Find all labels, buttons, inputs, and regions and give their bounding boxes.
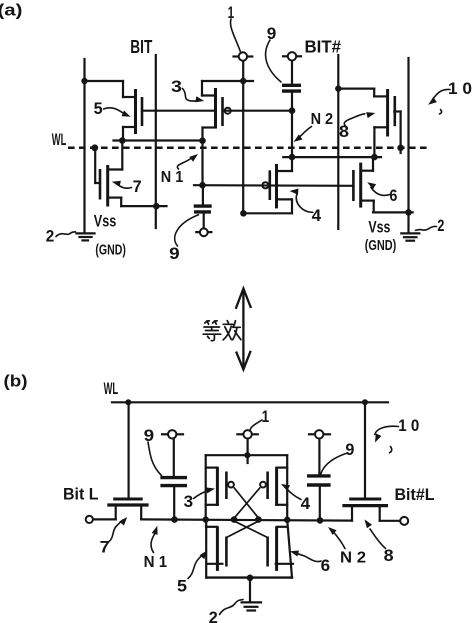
svg-text:BIT#: BIT# bbox=[305, 36, 342, 56]
svg-text:1 0: 1 0 bbox=[398, 416, 419, 435]
svg-text:Vss: Vss bbox=[94, 213, 117, 231]
svg-text:4: 4 bbox=[312, 206, 322, 225]
svg-text:1: 1 bbox=[262, 407, 270, 426]
svg-text:(b): (b) bbox=[4, 372, 28, 391]
svg-text:6: 6 bbox=[389, 186, 397, 205]
svg-text:N 1: N 1 bbox=[161, 169, 184, 186]
svg-text:WL: WL bbox=[104, 379, 119, 398]
svg-text:9: 9 bbox=[144, 426, 155, 445]
svg-text:2: 2 bbox=[209, 608, 218, 623]
svg-text:N 2: N 2 bbox=[340, 549, 366, 566]
svg-text:2: 2 bbox=[46, 227, 55, 246]
svg-text:BIT: BIT bbox=[130, 37, 152, 57]
svg-text:N 1: N 1 bbox=[144, 554, 168, 571]
svg-text:5: 5 bbox=[94, 99, 103, 118]
svg-text:9: 9 bbox=[345, 440, 354, 459]
svg-text:Bit L: Bit L bbox=[63, 486, 99, 504]
svg-text:5: 5 bbox=[177, 576, 187, 595]
svg-text:8: 8 bbox=[384, 546, 394, 565]
svg-text:(a): (a) bbox=[0, 1, 22, 20]
svg-text:7: 7 bbox=[100, 537, 110, 556]
svg-text:2: 2 bbox=[437, 216, 444, 235]
svg-text:WL: WL bbox=[52, 130, 67, 149]
svg-text:6: 6 bbox=[321, 556, 331, 575]
svg-text:4: 4 bbox=[301, 494, 311, 513]
svg-text:1 0: 1 0 bbox=[448, 79, 472, 98]
svg-text:7: 7 bbox=[133, 177, 142, 196]
svg-text:Vss: Vss bbox=[368, 219, 390, 237]
svg-text:9: 9 bbox=[267, 24, 277, 43]
svg-text:1: 1 bbox=[228, 3, 235, 22]
svg-text:(GND): (GND) bbox=[95, 243, 126, 259]
svg-text:3: 3 bbox=[171, 77, 182, 96]
svg-text:N 2: N 2 bbox=[311, 111, 334, 128]
svg-text:Bit#L: Bit#L bbox=[395, 486, 435, 504]
svg-text:(GND): (GND) bbox=[365, 238, 397, 254]
svg-text:9: 9 bbox=[169, 244, 180, 263]
svg-text:3: 3 bbox=[184, 492, 194, 511]
svg-text:8: 8 bbox=[339, 122, 349, 141]
